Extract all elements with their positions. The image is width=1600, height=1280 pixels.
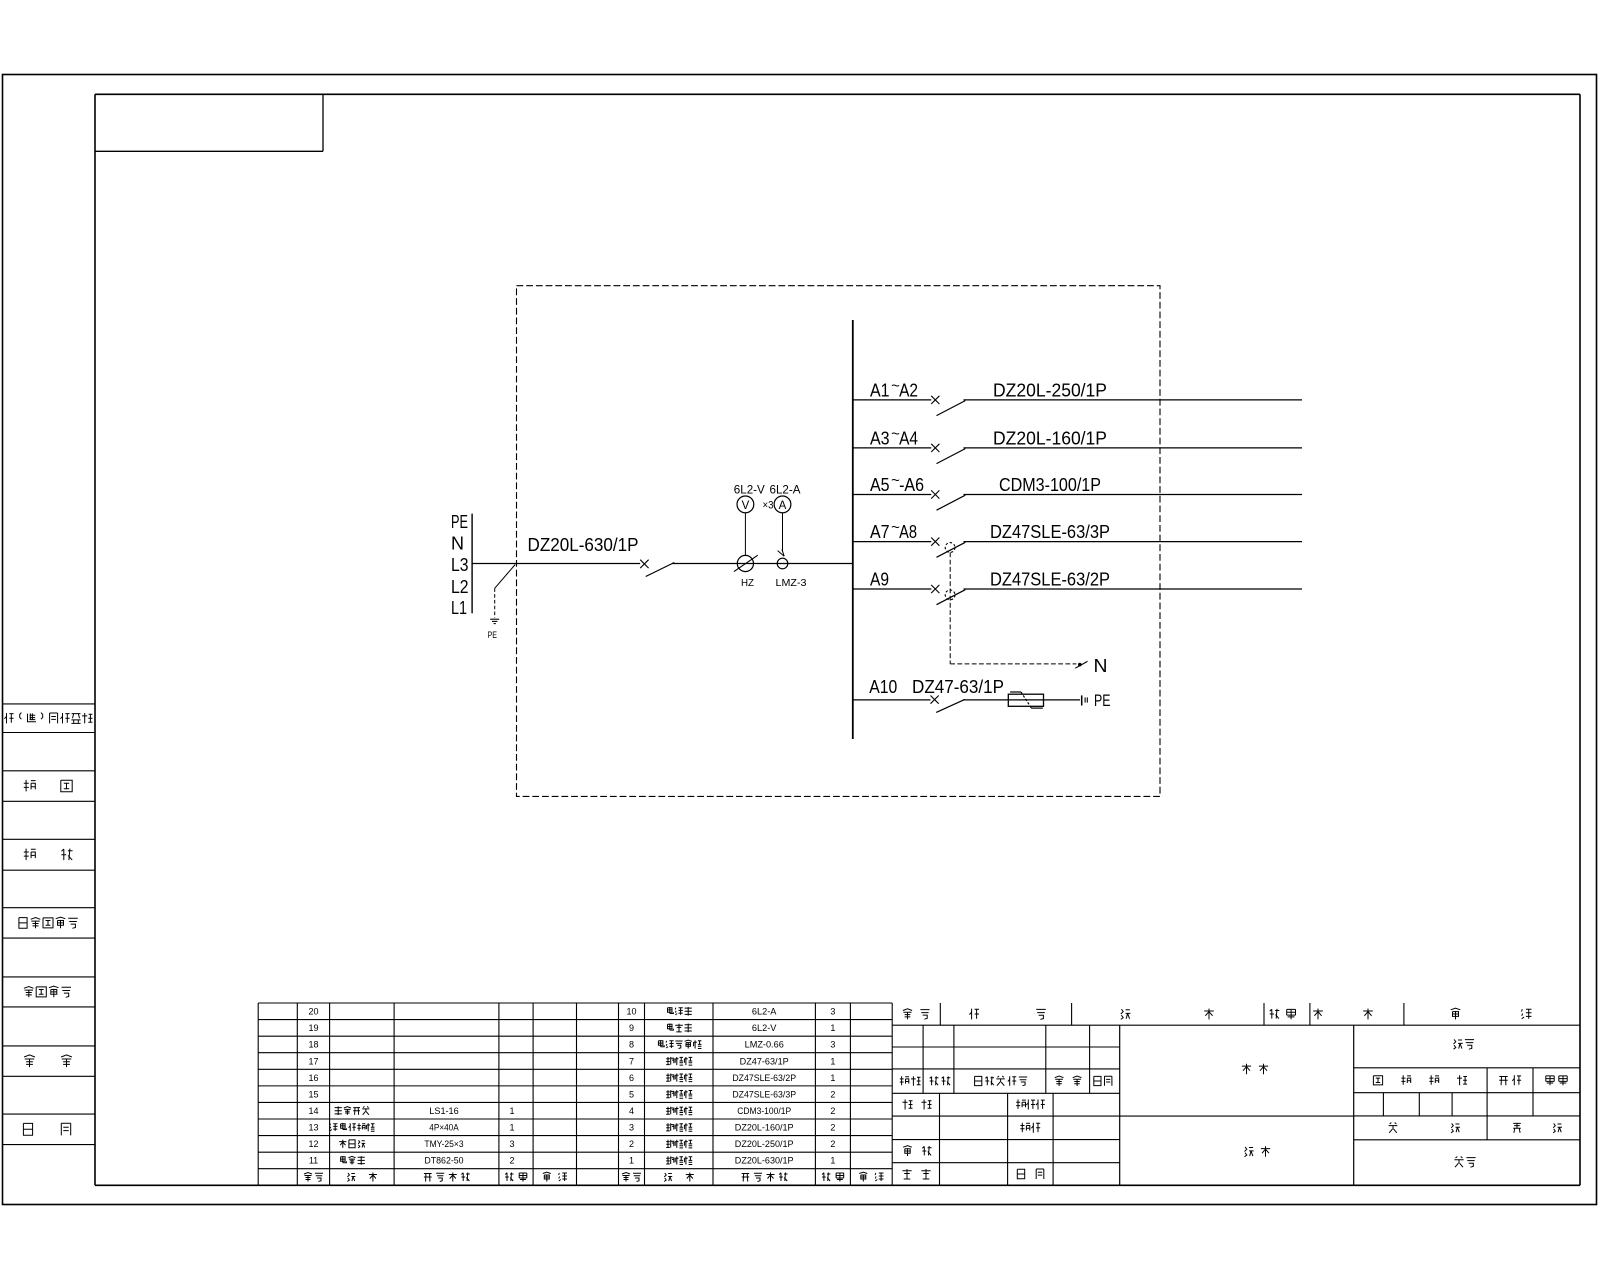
title block header texts — [903, 1008, 1532, 1019]
left margin labels — [4, 713, 92, 1136]
label circuit A1~A2 — [870, 378, 918, 401]
label circuit A3~A4 — [870, 426, 918, 449]
svg-text:6L2-V: 6L2-V — [752, 1023, 777, 1033]
svg-text:×3: ×3 — [763, 499, 774, 511]
svg-text:2: 2 — [509, 1156, 514, 1166]
svg-text:19: 19 — [308, 1023, 318, 1033]
title block name cell — [1245, 1146, 1271, 1156]
svg-text:DZ47SLE-63/2P: DZ47SLE-63/2P — [990, 570, 1110, 590]
svg-text:DZ47SLE-63/3P: DZ47SLE-63/3P — [990, 522, 1110, 542]
svg-text:2: 2 — [830, 1106, 835, 1116]
node N arrow — [1075, 661, 1087, 668]
RCD toroid A9 — [945, 590, 955, 600]
svg-text:4P×40A: 4P×40A — [429, 1123, 458, 1133]
top-left legend box — [95, 94, 323, 151]
svg-text:TMY-25×3: TMY-25×3 — [424, 1139, 463, 1149]
svg-text:1: 1 — [830, 1056, 835, 1066]
svg-text:L3: L3 — [451, 555, 469, 575]
parts list right numbers — [626, 1007, 636, 1166]
svg-text:PE: PE — [488, 630, 498, 641]
svg-text:A3: A3 — [870, 429, 890, 449]
title block number cell — [1454, 1039, 1475, 1049]
breaker contact cross A10 — [931, 696, 939, 704]
svg-text:3: 3 — [830, 1007, 835, 1017]
svg-text:CDM3-100/1P: CDM3-100/1P — [999, 475, 1101, 495]
title block signature labels — [902, 1100, 1044, 1180]
wire branch A1~A2 from bus — [853, 399, 932, 401]
svg-text:1: 1 — [830, 1023, 835, 1033]
breaker blade A5~-A6 — [937, 495, 966, 510]
svg-text:A5: A5 — [870, 475, 890, 495]
svg-text:7: 7 — [629, 1056, 634, 1066]
svg-text:8: 8 — [629, 1040, 634, 1050]
wire main to bus — [672, 563, 853, 565]
svg-text:2: 2 — [830, 1089, 835, 1099]
title block sheet count row — [1389, 1123, 1562, 1133]
svg-text:N: N — [1094, 656, 1108, 676]
svg-text:6L2-A: 6L2-A — [752, 1007, 777, 1017]
title block company cell — [1454, 1157, 1475, 1168]
voltmeter selector switch HZ — [734, 555, 758, 571]
ground tap dashed wire — [494, 588, 496, 618]
svg-text:LMZ-3: LMZ-3 — [776, 578, 807, 589]
distribution bus — [852, 320, 854, 739]
svg-text:LS1-16: LS1-16 — [429, 1106, 458, 1116]
wire branch A7~A8 from bus — [853, 541, 932, 543]
breaker blade A9 — [937, 590, 966, 605]
drawing inner frame — [95, 94, 1580, 1185]
svg-text:15: 15 — [308, 1089, 318, 1099]
svg-text:9: 9 — [629, 1023, 634, 1033]
wire branch A10 from bus — [853, 699, 931, 701]
svg-text:3: 3 — [509, 1139, 514, 1149]
svg-text:12: 12 — [308, 1139, 318, 1149]
svg-text:-A6: -A6 — [899, 475, 924, 495]
svg-text:A10: A10 — [869, 677, 897, 697]
svg-text:DZ20L-160/1P: DZ20L-160/1P — [993, 429, 1107, 449]
parts list header row — [304, 1172, 884, 1181]
label circuit A9 — [870, 570, 889, 590]
CT secondary arrow — [778, 549, 785, 556]
neutral link dashed wire — [950, 553, 1076, 664]
breaker contact cross A9 — [931, 585, 939, 593]
svg-text:14: 14 — [308, 1106, 318, 1116]
title block revision header — [900, 1076, 1112, 1086]
breaker blade A7~A8 — [937, 542, 966, 557]
svg-text:DZ47SLE-63/2P: DZ47SLE-63/2P — [732, 1073, 796, 1083]
svg-text:N: N — [451, 534, 464, 554]
svg-text:17: 17 — [308, 1056, 318, 1066]
svg-text:A2: A2 — [899, 381, 918, 401]
svg-text:5: 5 — [629, 1089, 634, 1099]
panel dashed enclosure box — [517, 286, 1161, 797]
parts list left numbers — [308, 1007, 318, 1166]
svg-text:A7: A7 — [870, 522, 890, 542]
svg-text:HZ: HZ — [741, 577, 755, 589]
left margin column rows — [3, 704, 96, 1145]
svg-text:1: 1 — [509, 1106, 514, 1116]
svg-text:DZ20L-630/1P: DZ20L-630/1P — [735, 1156, 794, 1166]
svg-text:DZ20L-250/1P: DZ20L-250/1P — [993, 381, 1107, 401]
svg-text:A4: A4 — [899, 429, 918, 449]
ammeter PA — [774, 496, 791, 513]
parts list right content rows — [658, 1007, 835, 1166]
current transformer TA LMZ-3 — [777, 558, 788, 569]
svg-text:A9: A9 — [870, 570, 889, 590]
breaker contact cross A7~A8 — [931, 538, 939, 546]
svg-text:20: 20 — [308, 1007, 318, 1017]
svg-text:3: 3 — [629, 1123, 634, 1133]
parts list left content rows — [330, 1106, 515, 1166]
svg-text:DZ20L-250/1P: DZ20L-250/1P — [735, 1139, 794, 1149]
svg-text:DZ47SLE-63/3P: DZ47SLE-63/3P — [732, 1089, 796, 1099]
wire voltmeter to switch — [744, 513, 746, 556]
svg-text:6: 6 — [629, 1073, 634, 1083]
svg-text:DZ47-63/1P: DZ47-63/1P — [912, 677, 1004, 697]
PE terminal bars — [1082, 695, 1088, 705]
svg-text:DZ47-63/1P: DZ47-63/1P — [740, 1056, 789, 1066]
label circuit A5~-A6 — [870, 472, 924, 495]
wire branch A9 from bus — [853, 588, 932, 590]
title block material cell — [1242, 1064, 1268, 1074]
svg-text:6L2-A: 6L2-A — [770, 483, 801, 497]
svg-text:A8: A8 — [899, 522, 917, 542]
svg-text:3: 3 — [830, 1040, 835, 1050]
svg-text:A1: A1 — [870, 381, 890, 401]
svg-text:11: 11 — [309, 1156, 318, 1166]
breaker contact cross A5~-A6 — [931, 490, 939, 498]
breaker QF1 blade — [646, 563, 675, 577]
svg-text:LMZ-0.66: LMZ-0.66 — [745, 1040, 784, 1050]
wire A10 to PE terminal — [963, 699, 1080, 701]
svg-text:CDM3-100/1P: CDM3-100/1P — [737, 1106, 791, 1116]
svg-text:10: 10 — [626, 1007, 636, 1017]
svg-text:A: A — [779, 500, 787, 512]
title block grid — [892, 1003, 1580, 1185]
svg-text:16: 16 — [308, 1073, 318, 1083]
ground symbol PE — [490, 619, 499, 623]
wire branch A1~A2 outgoing — [964, 399, 1303, 401]
svg-text:18: 18 — [308, 1040, 318, 1050]
voltmeter PV — [737, 496, 754, 513]
svg-text:1: 1 — [830, 1156, 835, 1166]
wire branch A3~A4 from bus — [853, 447, 932, 449]
svg-text:1: 1 — [629, 1156, 634, 1166]
breaker contact cross A1~A2 — [931, 396, 939, 404]
svg-text:2: 2 — [629, 1139, 634, 1149]
svg-text:PE: PE — [451, 512, 468, 532]
ground tap diagonal wire — [495, 565, 516, 589]
svg-text:L1: L1 — [451, 598, 467, 618]
wire branch A9 outgoing — [964, 588, 1303, 590]
svg-text:4: 4 — [629, 1106, 634, 1116]
wire branch A7~A8 outgoing — [964, 541, 1303, 543]
svg-text:L2: L2 — [451, 577, 469, 597]
wire branch A5~-A6 outgoing — [964, 494, 1303, 496]
wire branch A5~-A6 from bus — [853, 494, 932, 496]
parts list table grid — [258, 1003, 892, 1185]
breaker blade A3~A4 — [937, 449, 966, 464]
wire branch A3~A4 outgoing — [964, 447, 1303, 449]
svg-text:V: V — [742, 500, 750, 512]
breaker QF1 DZ20L-630/1P contact cross — [640, 560, 648, 568]
breaker contact cross A3~A4 — [931, 444, 939, 452]
wire ammeter to CT — [782, 513, 784, 552]
breaker blade A1~A2 — [937, 401, 966, 416]
svg-text:PE: PE — [1094, 691, 1111, 710]
svg-text:2: 2 — [830, 1123, 835, 1133]
breaker blade A10 — [936, 699, 965, 712]
svg-text:DZ20L-630/1P: DZ20L-630/1P — [528, 535, 639, 555]
wire incoming main — [472, 563, 640, 565]
incoming phase labels PE N L3 L2 L1 — [451, 512, 469, 618]
svg-text:13: 13 — [308, 1123, 318, 1133]
svg-text:6L2-V: 6L2-V — [734, 483, 765, 497]
phase bracket line — [471, 514, 473, 614]
label circuit A7~A8 — [870, 519, 917, 542]
svg-text:2: 2 — [830, 1139, 835, 1149]
title block mark scale weight row — [1373, 1075, 1567, 1085]
svg-text:DT862-50: DT862-50 — [424, 1156, 463, 1166]
svg-text:1: 1 — [509, 1123, 514, 1133]
svg-text:1: 1 — [830, 1073, 835, 1083]
svg-text:DZ20L-160/1P: DZ20L-160/1P — [735, 1123, 794, 1133]
RCD toroid A7~A8 — [945, 543, 955, 553]
surge protector FV — [1008, 692, 1043, 708]
